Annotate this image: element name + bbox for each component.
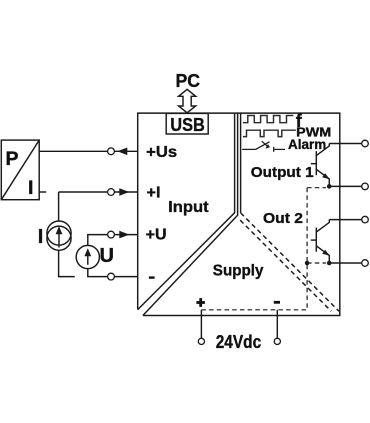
transistor Q2 (Out 2) [311,220,330,263]
dashed supply bottom line [201,309,307,311]
current source I [47,221,71,250]
wire +I [59,191,108,193]
svg-text:Alarm: Alarm [288,136,326,152]
wire Q1 collector to terminal [329,143,361,145]
isolation barrier (double diagonal, input/supply) [138,113,238,315]
wire minus terminal to box [114,276,138,278]
svg-text:I: I [38,226,44,248]
bottom terminal + [198,338,204,344]
svg-text:P: P [6,148,19,170]
terminal +U [108,231,115,238]
svg-text:+Us: +Us [146,144,177,161]
wire - supply to terminal [276,310,278,339]
PC-USB double arrow [179,89,196,113]
wire + supply to terminal [200,310,202,339]
label minus (input) [149,276,155,278]
alarm switch [242,141,285,152]
svg-text:24Vdc: 24Vdc [216,332,262,352]
label - (supply) [274,301,280,304]
wire Q2 emitter row to terminal [329,262,361,264]
svg-text:Output 1: Output 1 [251,164,314,181]
svg-text:Out 2: Out 2 [263,210,303,227]
svg-text:Supply: Supply [213,263,264,280]
wire +U terminal to box [114,234,138,236]
wire +Us terminal to box [114,150,138,152]
arrow +I (pointing right, into box) [119,188,129,196]
main device box [138,113,340,315]
bottom terminal - [274,338,280,344]
output section left edge (solid vertical, bends to dashed diagonal) [241,113,339,311]
f waveform [243,116,293,123]
svg-text:USB: USB [170,114,205,135]
right terminal 3 [362,216,369,223]
svg-text:U: U [100,245,114,267]
wire U-source bottom to minus terminal [88,269,108,277]
right terminal 1 [362,140,369,147]
label + (supply) [196,298,205,307]
dashed outline Out2 option: left vertical [306,188,308,310]
dashed diagonal companion (supply barrier) [240,220,331,311]
terminal +Us [108,148,115,155]
voltage source U [76,245,99,268]
terminal minus [108,273,115,280]
svg-text:Input: Input [168,199,209,216]
USB box [166,113,208,134]
wire P/I to +Us terminal [39,150,107,152]
right terminal 2 [362,183,369,190]
dashed link to Q2 emitter [307,262,326,264]
PWM waveform [243,130,296,136]
arrow +Us (pointing left, out of box) [117,148,127,156]
terminal +I [108,189,115,196]
P/I transducer box [1,140,39,200]
wire Q1 emitter row to terminal [329,185,361,187]
svg-text:I: I [28,177,33,199]
svg-text:+U: +U [146,227,167,244]
wire I-source bottom [59,250,75,276]
junction dot Q1 emitter [327,184,332,189]
stub P/I current output [39,191,46,193]
wire +I terminal to box [114,191,138,193]
svg-text:PC: PC [176,71,201,91]
wire U-source top to +U terminal [88,235,108,246]
transistor Q1 (Output 1) [311,144,330,187]
arrow +U (pointing right, into box) [119,231,129,239]
wire Q2 collector to terminal [329,219,361,221]
wire I-source top [58,192,60,221]
right terminal 4 [362,260,369,267]
dashed outline Out2 option: top [307,187,326,189]
svg-text:+I: +I [147,184,161,201]
junction dot Q2 emitter [327,261,332,266]
junction dot dashed [305,261,310,266]
